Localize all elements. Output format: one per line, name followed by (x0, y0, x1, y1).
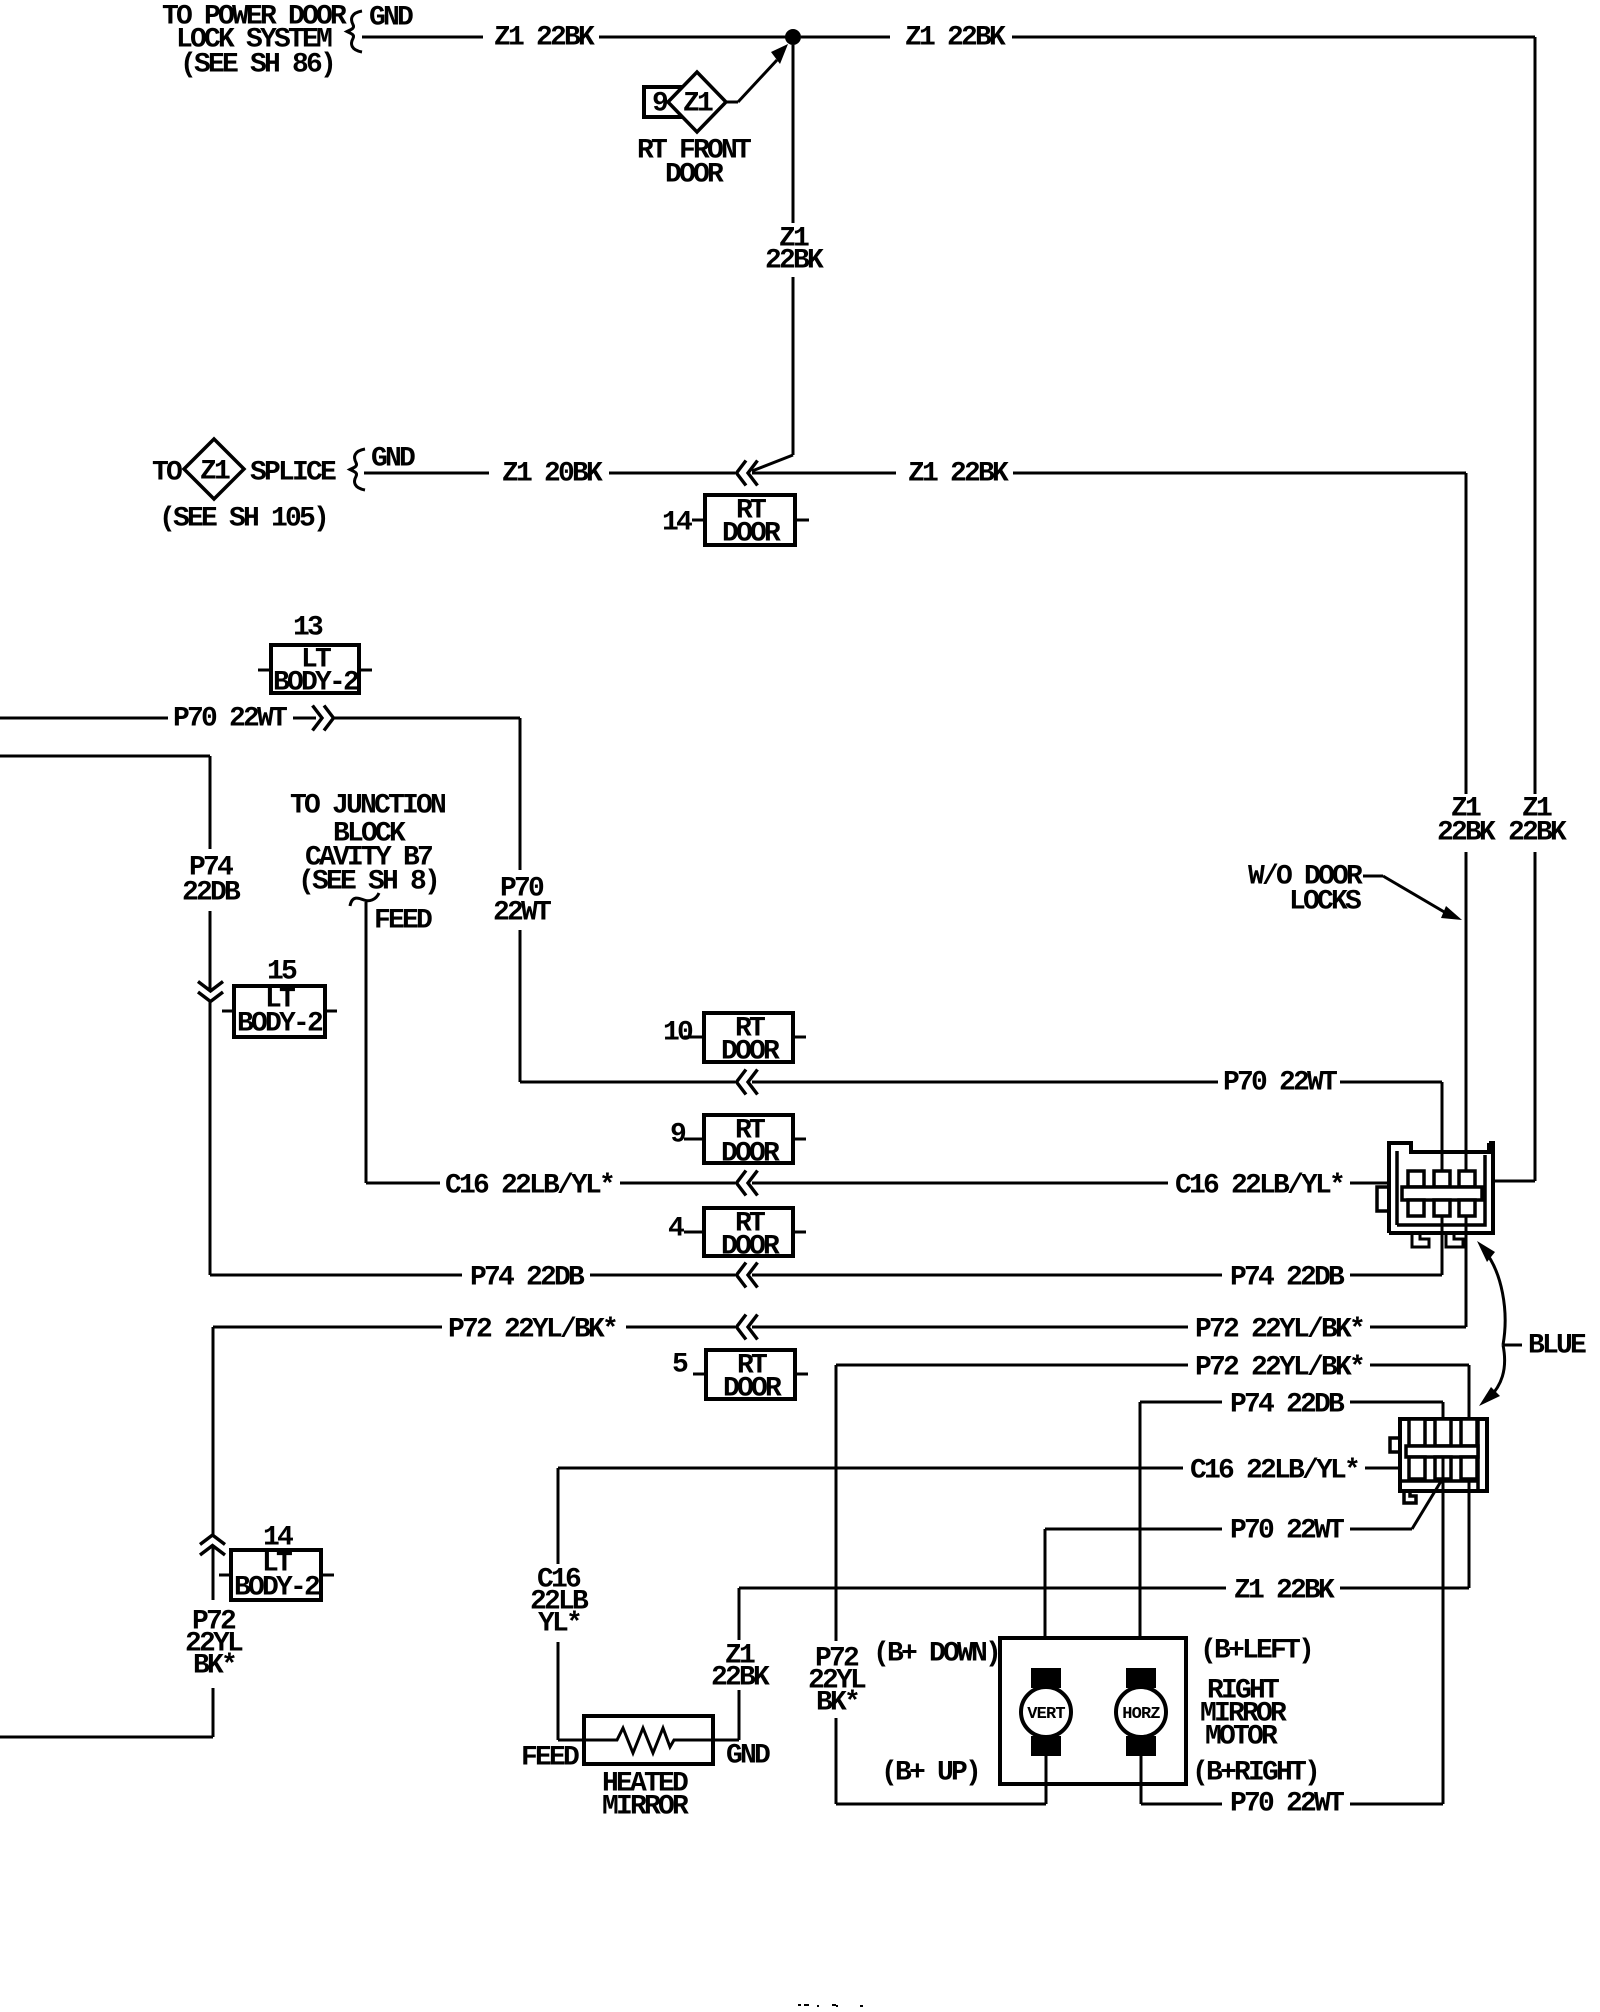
svg-text:22BK: 22BK (1437, 818, 1496, 849)
wire P70 from lower connector down to mirror motor return (1442, 1458, 1445, 1804)
svg-text:DOOR: DOOR (722, 519, 781, 550)
svg-text:Z1 20BK: Z1 20BK (502, 459, 603, 490)
svg-text:BODY-2: BODY-2 (273, 668, 359, 699)
svg-text:MIRROR: MIRROR (602, 1792, 689, 1823)
svg-text:GND: GND (371, 444, 415, 475)
svg-text:P70 22WT: P70 22WT (1230, 1516, 1344, 1547)
svg-text:YL*: YL* (538, 1609, 580, 1640)
svg-text:GND: GND (726, 1741, 770, 1772)
svg-text:SPLICE: SPLICE (250, 458, 336, 489)
svg-text:P74 22DB: P74 22DB (470, 1263, 585, 1294)
svg-text:DOOR: DOOR (721, 1232, 780, 1263)
wire C16 22LB/YL* (row 6) (366, 1182, 440, 1185)
wire Z1 vertical to heated mirror GND (738, 1588, 741, 1640)
svg-text:P70 22WT: P70 22WT (1230, 1789, 1344, 1820)
svg-text:BLUE: BLUE (1528, 1331, 1586, 1362)
svg-text:22BK: 22BK (1508, 818, 1567, 849)
svg-text:TO JUNCTION: TO JUNCTION (290, 791, 445, 822)
svg-text:P72 22YL/BK*: P72 22YL/BK* (1195, 1315, 1363, 1346)
wire C16 FEED vertical (365, 902, 368, 1183)
inline connector chevrons (row 8) (737, 1315, 747, 1340)
svg-text:(B+ DOWN): (B+ DOWN) (873, 1639, 999, 1670)
connector (lower) teeth and bar (1406, 1419, 1478, 1479)
wire C16 vertical to heated mirror (557, 1468, 560, 1564)
inline connector chevrons (row 3) (324, 706, 334, 731)
inline connector chevrons (row 5) (737, 1070, 747, 1095)
inline connector chevrons (vertical, 14) (200, 1535, 225, 1545)
svg-text:P72 22YL/BK*: P72 22YL/BK* (1195, 1353, 1363, 1384)
svg-text:13: 13 (293, 613, 323, 644)
wire P72 vertical to motor (835, 1365, 838, 1641)
svg-text:15: 15 (267, 957, 297, 988)
wire P70 22WT (row 12, mirror side) (1045, 1528, 1222, 1531)
svg-text:BK*: BK* (816, 1688, 858, 1719)
svg-text:FEED: FEED (374, 906, 432, 937)
svg-text:GND: GND (369, 3, 413, 34)
svg-text:Z1: Z1 (683, 89, 713, 120)
connector 14 RT DOOR (row 2) (705, 495, 795, 545)
node: splice junction dot (785, 29, 801, 45)
svg-text:DOOR: DOOR (665, 160, 724, 191)
wire Z1 22BK (row 2 right) (752, 472, 896, 475)
wire Z1 22BK vertical (w/o door locks, from row 2) (1465, 473, 1468, 794)
wire Z1 22BK from power door lock system (row 1) (362, 36, 483, 39)
scan artifact dots (page footer) (798, 2004, 801, 2006)
wire P74 into connector pin (1441, 1200, 1444, 1275)
svg-text:22DB: 22DB (182, 878, 241, 909)
wire P72 to left edge (0, 1736, 213, 1739)
wire P70 22WT from left (row 3) (0, 717, 168, 720)
arrow from splice Z1 to junction dot (726, 101, 738, 104)
right mirror motor box (1000, 1638, 1186, 1784)
svg-text:4: 4 (668, 1214, 684, 1245)
svg-text:Z1 22BK: Z1 22BK (494, 23, 595, 54)
svg-text:5: 5 (672, 1350, 688, 1381)
inline connector chevrons (row 6) (737, 1171, 747, 1196)
wire P70 vertical to VERT motor (1044, 1529, 1047, 1672)
svg-text:P74 22DB: P74 22DB (1230, 1390, 1345, 1421)
connector (upper, blue) housing (1377, 1143, 1493, 1233)
heated mirror element (584, 1716, 713, 1764)
motor HORZ (1116, 1687, 1166, 1737)
inline connector chevrons (vertical, 15) (198, 982, 223, 992)
wire Z1 22BK (row 13, mirror side) (739, 1587, 1226, 1590)
svg-text:9: 9 (652, 89, 668, 120)
wire Z1 22BK vertical from junction dot down (792, 45, 795, 223)
svg-text:Z1 22BK: Z1 22BK (908, 459, 1009, 490)
inline connector chevrons (row 2) (737, 461, 747, 486)
wire P74 22DB (row 10, mirror side) (1140, 1401, 1222, 1404)
connector (upper) bottom hooks (1412, 1233, 1429, 1247)
svg-text:22BK: 22BK (765, 246, 824, 277)
wire P70 22WT vertical (519, 718, 522, 870)
wire P72 22YL/BK* vertical to connector 14 (212, 1327, 215, 1535)
wire P70 into connector pin (1441, 1082, 1444, 1185)
svg-text:(SEE SH 105): (SEE SH 105) (159, 504, 327, 535)
brace (off-page continuation) row 1 (347, 11, 362, 52)
svg-text:P70 22WT: P70 22WT (173, 704, 287, 735)
svg-text:TO: TO (152, 458, 182, 489)
connector (lower, blue) housing (1390, 1419, 1487, 1503)
svg-text:HORZ: HORZ (1122, 1705, 1160, 1724)
svg-text:P74 22DB: P74 22DB (1230, 1263, 1345, 1294)
svg-text:9: 9 (670, 1120, 686, 1151)
svg-text:Z1 22BK: Z1 22BK (905, 23, 1006, 54)
brace FEED (350, 893, 379, 906)
connector (upper) teeth and bar (1402, 1171, 1482, 1216)
inline connector chevrons (row 7) (737, 1263, 747, 1288)
svg-text:C16 22LB/YL*: C16 22LB/YL* (445, 1171, 613, 1202)
svg-text:10: 10 (663, 1018, 693, 1049)
svg-text:Z1 22BK: Z1 22BK (1234, 1576, 1335, 1607)
wire P70 22WT (row 5) (520, 1081, 735, 1084)
svg-text:DOOR: DOOR (721, 1139, 780, 1170)
wire Z1 20BK (row 2 left) (364, 472, 489, 475)
svg-text:BODY-2: BODY-2 (234, 1573, 320, 1604)
wire P74 22DB vertical (209, 756, 212, 849)
splice symbol Z1 with cavity 9 (RT FRONT DOOR) (644, 87, 680, 117)
wire P72 22YL/BK* (row 8) (213, 1326, 442, 1329)
svg-text:FEED: FEED (521, 1743, 579, 1774)
wire HORZ motor bottom to P70 return (1140, 1756, 1143, 1804)
wire C16 22LB/YL* (row 11, mirror side) (558, 1467, 1183, 1470)
wire P74 22DB (row 7) (210, 1274, 462, 1277)
svg-text:BK*: BK* (193, 1651, 235, 1682)
svg-text:22BK: 22BK (711, 1663, 770, 1694)
wire P72 into connector pin (1465, 1200, 1468, 1327)
svg-text:MOTOR: MOTOR (1205, 1722, 1278, 1753)
svg-text:DOOR: DOOR (721, 1037, 780, 1068)
wire Z1 up into lower connector (1468, 1458, 1471, 1588)
wire VERT motor bottom to P72 (B+ UP) (1045, 1756, 1048, 1804)
splice symbol Z1 (row 2) (184, 439, 244, 499)
wire Z1 into connector right side (1492, 1180, 1535, 1183)
wire P70 diagonal into lower connector (1412, 1478, 1443, 1529)
svg-text:22WT: 22WT (493, 898, 551, 929)
svg-text:(SEE SH 86): (SEE SH 86) (180, 50, 334, 81)
svg-text:C16 22LB/YL*: C16 22LB/YL* (1190, 1456, 1358, 1487)
wire P74 vertical to HORZ motor (1139, 1402, 1142, 1672)
wire P72 22YL/BK* (row 9, mirror side) (836, 1364, 1188, 1367)
svg-text:C16 22LB/YL*: C16 22LB/YL* (1175, 1171, 1343, 1202)
wire P72 into lower connector (1468, 1365, 1471, 1446)
svg-text:(SEE SH 8): (SEE SH 8) (298, 867, 438, 898)
svg-text:VERT: VERT (1027, 1705, 1065, 1724)
motor VERT (1021, 1687, 1071, 1737)
svg-text:(B+RIGHT): (B+RIGHT) (1192, 1758, 1318, 1789)
wire P74 into lower connector (1442, 1402, 1445, 1446)
brace (off-page continuation) row 2 (350, 449, 365, 490)
svg-text:LOCKS: LOCKS (1289, 887, 1361, 918)
svg-text:BODY-2: BODY-2 (237, 1009, 323, 1040)
svg-text:P70 22WT: P70 22WT (1223, 1068, 1337, 1099)
svg-text:14: 14 (662, 508, 692, 539)
svg-text:P72 22YL/BK*: P72 22YL/BK* (448, 1315, 616, 1346)
wire P74 22DB from left (row 4) (0, 755, 210, 758)
svg-text:DOOR: DOOR (723, 1374, 782, 1405)
wire diagonal into inline connector row 2 (752, 455, 793, 471)
wire Z1 22BK (row 1 right) to right vertical (801, 36, 890, 39)
svg-text:(B+LEFT): (B+LEFT) (1200, 1636, 1312, 1667)
wire P70 22WT to vertical (334, 717, 520, 720)
svg-text:(B+ UP): (B+ UP) (881, 1758, 979, 1789)
wire Z1 22BK right vertical (from row 1) (1534, 37, 1537, 794)
svg-text:Z1: Z1 (200, 457, 230, 488)
